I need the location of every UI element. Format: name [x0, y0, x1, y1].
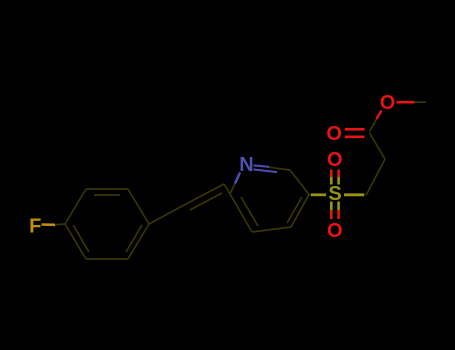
bond C3-S dark bit — [309, 194, 311, 196]
svg-text:O: O — [380, 92, 396, 114]
wire: CH2a-CH2b — [367, 159, 386, 195]
wire: ring edge R-BR — [128, 224, 149, 259]
wire: inner double BL-L — [73, 225, 89, 252]
carbonyl C=O double lines — [345, 128, 365, 131]
bond N1=C2 bright inner — [254, 169, 278, 172]
wire: ring edge BL-L — [65, 224, 86, 259]
sulfonyl S=O bottom: red halves — [330, 210, 333, 219]
wire: CH to pyridine C6 — [224, 184, 230, 194]
wire: ring edge BR-BL — [86, 258, 128, 260]
wire: CH=CH inner — [190, 193, 222, 210]
wire: C3-C4 — [291, 195, 309, 228]
sulfonyl S=O bottom: olive halves — [330, 202, 333, 211]
wire: CH=CH main — [186, 184, 224, 204]
wire: inner double TL-TR — [94, 194, 120, 196]
svg-text:N: N — [239, 154, 253, 176]
bond S-CH2a bright — [344, 193, 364, 196]
bond O-CH3 bright — [397, 101, 415, 104]
propanoate chain — [367, 102, 427, 194]
bond F-C (bright half) — [42, 223, 56, 226]
wire: inner double C3-C4 — [287, 197, 302, 223]
wire: ring edge L-TL — [65, 189, 86, 224]
svg-text:O: O — [327, 149, 343, 171]
wire: C4-C5 — [252, 227, 291, 232]
bond C-Oester bright half — [377, 111, 382, 120]
bond N1=C2 bright main — [254, 165, 270, 167]
wire: inner double R-BR — [126, 225, 142, 252]
wire: dark half N1-C2 — [269, 167, 290, 170]
bond F-C (dark half) — [55, 223, 65, 226]
wire: ring edge TR-R — [128, 189, 149, 224]
bond S-CH2a dark bit — [364, 194, 367, 196]
wire: inner double C5-C6 — [241, 197, 258, 226]
wire: C2-C3 — [290, 170, 309, 195]
bond C3-S bright — [311, 193, 326, 196]
wire: dark tail O-CH3 — [415, 101, 427, 103]
bond N1-C6 bright half — [235, 173, 240, 184]
wire: phenyl to CH — [149, 204, 186, 224]
vinyl linker — [149, 184, 230, 224]
sulfonyl S=O top: red halves — [330, 170, 333, 178]
wire: ring edge TL-TR — [86, 188, 128, 190]
benzene ring (4-fluorophenyl) — [65, 189, 149, 259]
wire: dark half N1-C6 — [230, 184, 235, 195]
wire: C5-C6 — [230, 194, 252, 232]
svg-text:F: F — [29, 216, 41, 238]
pyridine ring — [230, 167, 309, 232]
wire: CH2b-carbonyl C — [370, 133, 386, 159]
wire: dark half C-Oester — [370, 119, 377, 132]
svg-text:O: O — [326, 123, 342, 145]
svg-text:O: O — [327, 220, 343, 242]
sulfonyl S=O top: olive halves — [330, 177, 333, 185]
